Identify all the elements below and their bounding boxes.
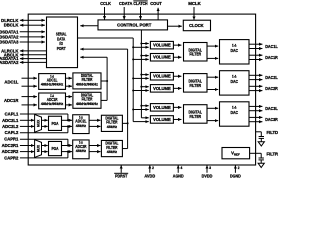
pin ASDATA1 (left, serial port) <box>0 56 47 61</box>
sigma-delta DAC2 block <box>220 71 250 95</box>
svg-text:DAC: DAC <box>230 110 238 115</box>
svg-text:48kHz: 48kHz <box>76 123 86 128</box>
pin DAC3R (right, output pair) <box>249 117 278 122</box>
wire: control port to clock <box>168 25 182 27</box>
pin ADC1L (analog input pair) <box>4 78 36 86</box>
pin DSDATA3 (left, serial port) <box>0 40 45 45</box>
wire: bus tap to volume (upper) <box>141 86 148 88</box>
sigma-delta DAC3 block <box>220 102 250 126</box>
PGA block (2R) <box>49 141 62 155</box>
svg-text:FILTD: FILTD <box>267 130 279 135</box>
pin ADC2L1 (left) <box>2 118 34 123</box>
pin ADC2R2 (left) <box>2 149 35 154</box>
svg-text:PGA: PGA <box>52 121 59 126</box>
pin AGND (bottom) <box>173 165 184 178</box>
sigma-delta ADC1L block <box>39 73 66 89</box>
wire: bus tap to volume (lower) <box>133 109 149 111</box>
digital filter (ADC1L) block <box>73 73 101 89</box>
svg-text:MUX: MUX <box>36 119 40 127</box>
svg-text:48kHz/96kHz: 48kHz/96kHz <box>41 83 64 87</box>
svg-text:DAC3L: DAC3L <box>265 106 278 111</box>
svg-text:Σ-Δ: Σ-Δ <box>232 43 237 48</box>
pin DBCLK (left, serial port) <box>4 23 45 28</box>
pin CAPR2 (left) <box>4 155 68 160</box>
svg-text:DAC2R: DAC2R <box>265 86 278 91</box>
svg-text:DSDATA3: DSDATA3 <box>0 40 19 45</box>
serial data I/O port block <box>47 17 78 68</box>
sigma-delta DAC1 block <box>220 40 250 64</box>
svg-text:DAC1L: DAC1L <box>265 44 278 49</box>
pin ADC2L2 (left) <box>2 124 34 129</box>
wires: volumes to digital filter (DAC1) <box>173 44 181 46</box>
svg-text:48kHz/96kHz: 48kHz/96kHz <box>41 102 64 106</box>
svg-text:CCLK: CCLK <box>100 1 111 6</box>
svg-text:VOLUME: VOLUME <box>153 74 171 79</box>
wires: digital filter to DAC2 <box>207 76 218 78</box>
svg-text:CLOCK: CLOCK <box>189 23 204 28</box>
svg-text:4: 4 <box>181 166 183 170</box>
digital filter (DAC2) block <box>184 74 208 93</box>
wire: bus tap to volume (lower) <box>133 90 149 92</box>
digital filter (ADC1R) block <box>73 92 101 108</box>
svg-text:MUX: MUX <box>36 144 40 152</box>
pin ABCLK (left, serial port) <box>4 52 47 57</box>
wires: PGA to ADC (2R) <box>62 145 73 147</box>
svg-text:48kHz: 48kHz <box>76 148 86 153</box>
wire: serial port audio data bus to volume controls <box>78 37 134 39</box>
volume control 3 <box>150 73 173 81</box>
pin FILTD with external capacitor to ground <box>256 130 279 146</box>
svg-text:VOLUME: VOLUME <box>153 43 171 48</box>
wires: digital filter to DAC3 <box>207 107 218 109</box>
volume control 1 <box>150 41 173 49</box>
svg-text:VREF: VREF <box>231 151 240 157</box>
svg-text:CAPR1: CAPR1 <box>4 137 19 142</box>
chip outline border <box>28 14 255 165</box>
wire: bus tap to volume (upper) <box>141 43 148 45</box>
wires: ADC2L to digital filter <box>89 119 100 121</box>
pin ADC2R1 (left) <box>2 143 35 148</box>
wire: ADC2 filters to serial port (return) <box>122 122 127 124</box>
wires: digital filter to DAC1 <box>207 45 218 47</box>
svg-text:DAC1R: DAC1R <box>265 55 278 60</box>
svg-text:CONTROL PORT: CONTROL PORT <box>117 22 152 27</box>
svg-text:Σ-Δ: Σ-Δ <box>232 74 237 79</box>
wires: MUX to PGA (2L) <box>42 119 48 121</box>
pin CAPL1 (left) <box>5 112 68 117</box>
sigma-delta ADC2R block <box>73 140 89 159</box>
pin CCLK (top) <box>100 1 111 20</box>
pin FILTR with external capacitor to ground (VREF output) <box>250 151 279 167</box>
pin AVDD (bottom) <box>144 165 155 178</box>
pin MCLK (top) <box>188 1 201 20</box>
svg-text:DBCLK: DBCLK <box>4 23 19 28</box>
svg-text:PORT: PORT <box>57 46 66 51</box>
svg-text:48kHz/96kHz: 48kHz/96kHz <box>76 82 98 86</box>
control port block <box>98 20 168 30</box>
svg-text:DAC: DAC <box>230 48 238 53</box>
svg-text:ADC1L: ADC1L <box>4 80 18 85</box>
svg-text:COUT: COUT <box>150 1 162 6</box>
svg-text:48kHz/96kHz: 48kHz/96kHz <box>76 102 98 106</box>
svg-text:ADC1R: ADC1R <box>4 98 18 103</box>
digital filter (DAC3) block <box>184 105 208 124</box>
pin PDRST (bottom) <box>114 165 128 178</box>
volume control 5 <box>150 104 173 112</box>
volume control 2 <box>150 54 173 62</box>
wires: MUX to PGA (2R) <box>42 145 48 147</box>
wires: CAPL1/CAPL2 joins to ADC input lines <box>67 114 69 120</box>
svg-text:DGND: DGND <box>230 173 241 178</box>
junction: ADC2L filter output <box>127 122 129 124</box>
svg-text:VOLUME: VOLUME <box>153 117 171 122</box>
svg-text:CDATA: CDATA <box>119 1 133 6</box>
pin DGND (bottom) <box>230 165 241 178</box>
PGA block (2L) <box>49 116 62 130</box>
wire: bus tap to volume (lower) <box>133 58 149 60</box>
svg-text:CLATCH: CLATCH <box>133 1 147 6</box>
pin DAC3L (right, output pair) <box>249 106 278 111</box>
wire: bus tap to volume (lower) <box>133 77 149 79</box>
pin DAC1L (right, output pair) <box>249 44 278 49</box>
sigma-delta ADC1R block <box>39 93 66 109</box>
pin DAC2R (right, output pair) <box>249 86 278 91</box>
voltage reference VREF block <box>222 148 250 159</box>
svg-text:FILTR: FILTR <box>267 151 279 156</box>
svg-text:VOLUME: VOLUME <box>153 55 171 60</box>
wire: bus tap to volume (upper) <box>141 105 148 107</box>
svg-text:DAC3R: DAC3R <box>265 117 278 122</box>
svg-text:VOLUME: VOLUME <box>153 105 171 110</box>
digital filter (ADC2L) block <box>101 115 122 131</box>
input MUX (2R) <box>35 140 42 158</box>
wire: control port to serial data port <box>80 25 98 27</box>
wires: CAPR1/CAPR2 joins to ADC input lines <box>67 139 69 145</box>
wire: ADC1 filters to serial port (return) <box>101 80 107 82</box>
svg-text:DVDD: DVDD <box>202 173 213 178</box>
input MUX (2L) <box>35 114 42 132</box>
pin CLATCH (top) <box>133 1 147 20</box>
pin ALRCLK (left, serial port) <box>1 48 46 53</box>
pin DVDD (bottom) <box>202 165 213 178</box>
svg-text:PDRST: PDRST <box>115 173 127 178</box>
svg-text:2: 2 <box>238 166 240 170</box>
svg-text:ASDATA2: ASDATA2 <box>0 60 19 65</box>
svg-text:VOLUME: VOLUME <box>153 86 171 91</box>
svg-text:CAPR2: CAPR2 <box>4 155 19 160</box>
svg-text:FILTER: FILTER <box>189 52 201 57</box>
svg-text:CAPL2: CAPL2 <box>5 130 19 135</box>
sigma-delta ADC2L block <box>73 114 89 133</box>
svg-text:AGND: AGND <box>173 173 184 178</box>
wires: ADC1L to digital filter <box>66 77 73 79</box>
svg-text:ADC2L1: ADC2L1 <box>2 118 19 123</box>
wire: control port drop to volume controls <box>140 30 142 118</box>
wires: volumes to digital filter (DAC3) <box>173 106 181 108</box>
svg-text:ADC2L2: ADC2L2 <box>2 124 19 129</box>
svg-text:PGA: PGA <box>52 146 59 151</box>
pin ADC1R (analog input pair) <box>4 97 37 105</box>
pin DAC1R (right, output pair) <box>249 55 278 60</box>
volume control 6 <box>150 116 173 124</box>
wires: ADC2R to digital filter <box>89 145 100 147</box>
digital filter (ADC2R) block <box>101 140 122 156</box>
pin ASDATA2 (left, serial port) <box>0 60 47 65</box>
svg-text:ADC2R1: ADC2R1 <box>2 143 19 148</box>
svg-text:FILTER: FILTER <box>82 97 93 102</box>
svg-text:48kHz: 48kHz <box>107 124 117 129</box>
wires: ADC1R to digital filter <box>66 96 73 98</box>
pin CAPL2 (left) <box>5 130 68 135</box>
svg-text:DAC: DAC <box>230 79 238 84</box>
svg-text:48kHz: 48kHz <box>107 149 117 154</box>
wires: volumes to digital filter (DAC2) <box>173 75 181 77</box>
svg-text:FILTER: FILTER <box>82 77 93 82</box>
pin DSDATA2 (left, serial port) <box>0 34 45 39</box>
svg-text:CAPL1: CAPL1 <box>5 112 19 117</box>
pin DSDATA1 (left, serial port) <box>0 29 45 34</box>
svg-text:ADC2R2: ADC2R2 <box>2 149 19 154</box>
pin CAPR1 (left) <box>4 137 68 142</box>
svg-text:FILTER: FILTER <box>189 83 201 88</box>
svg-text:Σ-Δ: Σ-Δ <box>232 105 237 110</box>
wires: PGA to ADC (2L) <box>62 119 73 121</box>
svg-text:FILTER: FILTER <box>189 114 201 119</box>
pin DAC2L (right, output pair) <box>249 75 278 80</box>
junction: ADC1L filter output <box>106 80 108 82</box>
svg-text:DAC2L: DAC2L <box>265 75 278 80</box>
wire: bus tap to volume (upper) <box>141 55 148 57</box>
wire: bus tap to volume (lower) <box>133 46 149 48</box>
digital filter (DAC1) block <box>184 43 208 62</box>
wire: bus tap to volume (upper) <box>141 74 148 76</box>
pin COUT (top) <box>150 1 162 20</box>
svg-text:2: 2 <box>152 166 154 170</box>
pin DLRCLK (left, serial port) <box>1 18 45 23</box>
pin CDATA (top) <box>119 1 133 20</box>
clock block <box>183 20 210 31</box>
svg-text:AVDD: AVDD <box>144 173 155 178</box>
svg-text:MCLK: MCLK <box>188 1 201 6</box>
volume control 4 <box>150 85 173 93</box>
svg-text:3: 3 <box>209 166 211 170</box>
